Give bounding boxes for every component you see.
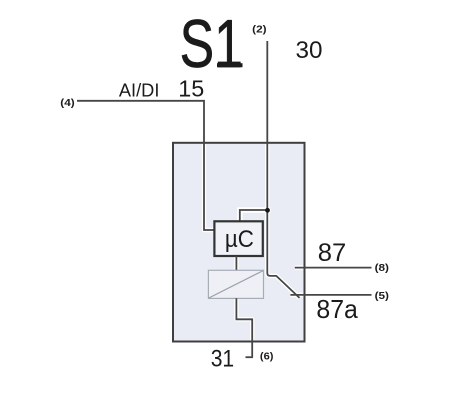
relay coil diagonal [209, 271, 263, 298]
svg-text:30: 30 [296, 37, 323, 64]
wire terminal 30 with switch arm [267, 41, 299, 298]
svg-text:87a: 87a [316, 294, 358, 324]
svg-text:µC: µC [225, 226, 254, 253]
wire node 30 to microcontroller [240, 210, 268, 221]
wire coil to terminal 31 [236, 298, 252, 357]
svg-text:(4): (4) [60, 97, 74, 109]
svg-text:AI/DI: AI/DI [119, 79, 159, 100]
terminal tick 31 [246, 356, 254, 358]
wire terminal 15 input [77, 101, 214, 230]
contact wire 87 [295, 267, 372, 269]
label S1 numeral foot [217, 63, 243, 67]
wire node 30 to microcontroller (white casing) [240, 210, 271, 221]
svg-text:(2): (2) [252, 23, 266, 35]
wire microcontroller to coil [235, 256, 237, 271]
relay body K1 [173, 143, 305, 342]
relay coil [208, 270, 263, 298]
node junction 30 [265, 208, 270, 213]
svg-text:(5): (5) [375, 290, 389, 302]
microcontroller U1 [214, 221, 262, 256]
svg-text:31: 31 [211, 346, 235, 373]
contact wire 87a [290, 294, 371, 296]
wire casings (white halo inside relay body) [204, 144, 303, 340]
svg-text:87: 87 [318, 239, 347, 267]
svg-text:S1: S1 [180, 6, 243, 82]
svg-text:15: 15 [178, 76, 204, 102]
svg-text:(8): (8) [375, 262, 389, 274]
svg-text:(6): (6) [260, 351, 274, 363]
